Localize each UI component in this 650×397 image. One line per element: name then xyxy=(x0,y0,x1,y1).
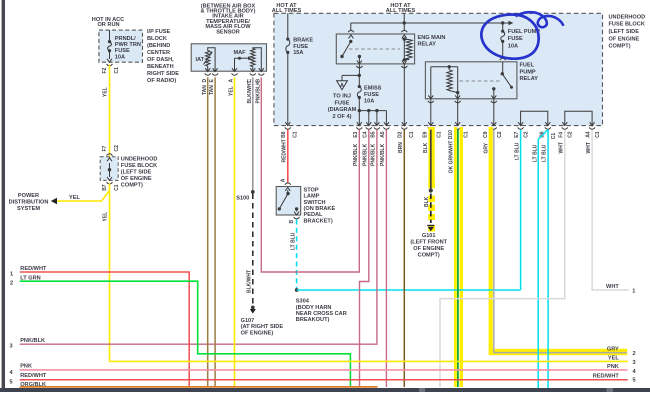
svg-text:OF ENGINE: OF ENGINE xyxy=(121,176,152,182)
svg-text:PWR TRN: PWR TRN xyxy=(115,42,141,48)
svg-text:SWITCH: SWITCH xyxy=(304,200,326,206)
svg-text:(LEFT SIDE: (LEFT SIDE xyxy=(121,170,152,176)
svg-text:PNK/BLK: PNK/BLK xyxy=(371,143,377,166)
svg-text:YEL: YEL xyxy=(102,212,108,222)
svg-text:A4: A4 xyxy=(586,131,592,138)
svg-text:YEL: YEL xyxy=(102,87,108,97)
svg-text:3: 3 xyxy=(632,360,635,366)
svg-text:C2: C2 xyxy=(568,131,574,138)
svg-text:BRN: BRN xyxy=(398,142,404,153)
svg-text:DK GRN/WHT: DK GRN/WHT xyxy=(448,141,454,174)
svg-text:C1: C1 xyxy=(463,131,469,138)
svg-text:E3: E3 xyxy=(353,131,359,137)
svg-text:2: 2 xyxy=(10,281,13,287)
svg-text:S100: S100 xyxy=(236,196,249,202)
svg-text:ENG MAIN: ENG MAIN xyxy=(418,35,446,41)
svg-text:PNK/BLK: PNK/BLK xyxy=(255,81,261,104)
svg-text:CENTER: CENTER xyxy=(147,50,170,56)
svg-text:COMPT): COMPT) xyxy=(609,44,631,50)
svg-text:PRNDL/: PRNDL/ xyxy=(115,36,136,42)
svg-text:FUSE BLOCK: FUSE BLOCK xyxy=(121,163,157,169)
svg-text:G107: G107 xyxy=(241,318,255,324)
svg-text:C2: C2 xyxy=(523,131,529,138)
svg-text:RED/WHT: RED/WHT xyxy=(20,373,47,379)
svg-text:OR RUN: OR RUN xyxy=(97,22,119,28)
svg-text:C1: C1 xyxy=(114,184,120,191)
svg-text:TAN: TAN xyxy=(202,85,208,95)
svg-text:RED/WHT: RED/WHT xyxy=(20,266,47,272)
svg-text:E9: E9 xyxy=(423,131,429,137)
svg-text:NEAR CROSS CAR: NEAR CROSS CAR xyxy=(296,311,347,317)
svg-text:A5: A5 xyxy=(380,131,386,138)
svg-text:RIGHT SIDE: RIGHT SIDE xyxy=(147,71,179,77)
svg-text:BRACKET): BRACKET) xyxy=(304,218,333,224)
svg-text:PNK/BLK: PNK/BLK xyxy=(20,338,45,344)
svg-text:PNK/BLK: PNK/BLK xyxy=(353,143,359,166)
svg-text:GRY: GRY xyxy=(483,142,489,153)
svg-text:B5: B5 xyxy=(370,131,376,138)
svg-text:B7: B7 xyxy=(102,184,108,191)
svg-text:ALL TIMES: ALL TIMES xyxy=(272,8,302,14)
svg-text:F2: F2 xyxy=(102,67,108,73)
svg-text:BLOCK: BLOCK xyxy=(147,36,167,42)
svg-text:5: 5 xyxy=(632,378,635,384)
svg-text:OF ENGINE: OF ENGINE xyxy=(609,36,640,42)
svg-text:BLK/WHT: BLK/WHT xyxy=(247,80,253,103)
svg-text:PEDAL: PEDAL xyxy=(304,212,324,218)
svg-text:UNDERHOOD: UNDERHOOD xyxy=(609,14,646,20)
svg-text:(BEHIND: (BEHIND xyxy=(147,43,170,49)
svg-text:LT BLU: LT BLU xyxy=(541,144,547,162)
svg-text:C1: C1 xyxy=(551,133,557,140)
svg-text:10A: 10A xyxy=(364,98,374,104)
svg-text:WHT: WHT xyxy=(606,284,619,290)
svg-text:TAN: TAN xyxy=(209,85,215,95)
svg-text:PNK: PNK xyxy=(607,364,619,370)
svg-text:PUMP: PUMP xyxy=(520,69,536,75)
svg-text:OF RADIO): OF RADIO) xyxy=(147,78,176,84)
svg-text:BENEATH: BENEATH xyxy=(147,64,174,70)
svg-text:FUSE BLOCK: FUSE BLOCK xyxy=(609,22,645,28)
svg-text:BRAKE: BRAKE xyxy=(293,38,313,44)
svg-text:1: 1 xyxy=(632,289,635,295)
svg-text:10A: 10A xyxy=(508,43,518,49)
svg-text:BLK/WHT: BLK/WHT xyxy=(246,270,252,293)
svg-text:SENSOR: SENSOR xyxy=(216,29,240,35)
svg-text:LT BLU: LT BLU xyxy=(514,142,520,160)
svg-text:D: D xyxy=(202,79,208,83)
svg-text:C2: C2 xyxy=(114,145,120,152)
svg-text:YEL: YEL xyxy=(69,195,80,201)
svg-text:WHT: WHT xyxy=(586,142,592,153)
svg-text:IAT: IAT xyxy=(196,57,205,63)
svg-text:FUSE: FUSE xyxy=(508,36,523,42)
svg-text:PNK: PNK xyxy=(20,364,32,370)
svg-text:ALL TIMES: ALL TIMES xyxy=(386,8,416,14)
svg-text:A: A xyxy=(340,83,344,89)
svg-text:F4: F4 xyxy=(558,132,564,138)
svg-text:OF ENGINE): OF ENGINE) xyxy=(241,331,274,337)
svg-text:3: 3 xyxy=(9,344,12,350)
svg-text:LT GRN: LT GRN xyxy=(20,275,40,281)
svg-text:10A: 10A xyxy=(115,54,125,60)
svg-text:C1: C1 xyxy=(595,131,601,138)
svg-text:GRY: GRY xyxy=(607,346,619,352)
svg-text:FUSE: FUSE xyxy=(293,44,308,50)
svg-text:C1: C1 xyxy=(409,131,415,138)
svg-text:POWER: POWER xyxy=(18,193,39,199)
svg-text:BREAKOUT): BREAKOUT) xyxy=(296,317,330,323)
svg-text:B8: B8 xyxy=(281,131,287,138)
svg-text:OF ENGINE: OF ENGINE xyxy=(413,246,444,252)
svg-text:C2: C2 xyxy=(497,131,503,138)
svg-text:G101: G101 xyxy=(422,233,436,239)
svg-text:FUSE: FUSE xyxy=(364,92,379,98)
svg-text:BLK: BLK xyxy=(423,142,429,153)
svg-text:PNK/BLK: PNK/BLK xyxy=(363,143,369,166)
svg-text:E7: E7 xyxy=(514,131,520,137)
svg-text:BLK: BLK xyxy=(424,196,430,207)
svg-text:5: 5 xyxy=(9,380,12,386)
svg-text:1: 1 xyxy=(10,271,13,277)
svg-text:ORG/BLK: ORG/BLK xyxy=(20,382,46,388)
svg-text:RELAY: RELAY xyxy=(418,42,437,48)
svg-text:RELAY: RELAY xyxy=(520,76,539,82)
svg-text:(LEFT FRONT: (LEFT FRONT xyxy=(410,240,447,246)
svg-text:C9: C9 xyxy=(483,131,489,138)
svg-text:C1: C1 xyxy=(293,131,299,138)
svg-text:S304: S304 xyxy=(296,299,310,305)
svg-text:D10: D10 xyxy=(448,130,454,139)
svg-text:2: 2 xyxy=(632,351,635,357)
svg-text:(ON BRAKE: (ON BRAKE xyxy=(304,206,336,212)
svg-text:MAF: MAF xyxy=(233,50,246,56)
svg-text:RED/WHT: RED/WHT xyxy=(593,373,620,379)
svg-text:RED/WHT: RED/WHT xyxy=(281,139,287,162)
svg-text:YEL: YEL xyxy=(608,355,619,361)
svg-text:15A: 15A xyxy=(293,50,303,56)
svg-text:C1: C1 xyxy=(114,67,120,74)
svg-text:PNK/BLK: PNK/BLK xyxy=(380,143,386,166)
svg-text:(BODY HARN: (BODY HARN xyxy=(296,305,332,311)
svg-text:C4: C4 xyxy=(362,131,368,138)
svg-text:WHT: WHT xyxy=(559,142,565,153)
svg-text:LT BLU: LT BLU xyxy=(291,232,297,250)
svg-text:C1: C1 xyxy=(436,131,442,138)
svg-text:B: B xyxy=(289,220,295,224)
svg-text:D2: D2 xyxy=(398,131,404,138)
svg-text:I/P FUSE: I/P FUSE xyxy=(147,29,170,35)
svg-text:SYSTEM: SYSTEM xyxy=(17,206,40,212)
svg-text:FUEL PUMP: FUEL PUMP xyxy=(508,29,540,35)
svg-text:A: A xyxy=(280,178,286,182)
svg-text:DISTRIBUTION: DISTRIBUTION xyxy=(9,200,49,206)
svg-text:2 OF 4): 2 OF 4) xyxy=(333,114,352,120)
svg-text:F7: F7 xyxy=(102,145,108,151)
svg-text:COMPT): COMPT) xyxy=(121,183,143,189)
svg-text:(LEFT SIDE: (LEFT SIDE xyxy=(609,29,640,35)
svg-text:COMPT): COMPT) xyxy=(418,253,440,259)
svg-text:STOP: STOP xyxy=(304,187,319,193)
svg-text:(AT RIGHT SIDE: (AT RIGHT SIDE xyxy=(241,324,284,330)
svg-text:FUSE: FUSE xyxy=(335,100,350,106)
svg-text:EMISS: EMISS xyxy=(364,86,382,92)
svg-text:LAMP: LAMP xyxy=(304,194,320,200)
svg-text:UNDERHOOD: UNDERHOOD xyxy=(121,157,158,163)
svg-text:FUEL: FUEL xyxy=(520,63,535,69)
svg-text:TO INJ: TO INJ xyxy=(333,94,351,100)
svg-text:OF DASH,: OF DASH, xyxy=(147,57,174,63)
svg-text:(DIAGRAM: (DIAGRAM xyxy=(328,107,357,113)
svg-text:FUSE: FUSE xyxy=(115,48,130,54)
